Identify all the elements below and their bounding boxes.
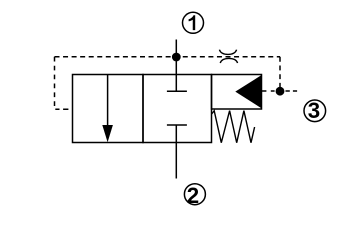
svg-text:2: 2 bbox=[187, 183, 199, 208]
svg-text:3: 3 bbox=[308, 98, 320, 123]
